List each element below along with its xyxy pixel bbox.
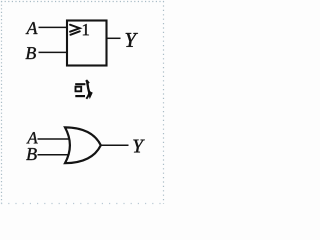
node Y (shape gate output label): [133, 140, 144, 153]
OR gate U1 (IEC rectangular symbol): [67, 21, 107, 66]
wire A to U2: [38, 138, 71, 140]
wire U1 output: [107, 37, 121, 39]
wire B to U2: [38, 154, 71, 156]
label 1 of U1: [83, 24, 89, 35]
node A (IEC gate input label): [26, 22, 38, 34]
node B (IEC gate input label): [25, 47, 35, 59]
node B (shape gate input label): [26, 148, 37, 160]
label 或 (Chinese OR), drawn strokes: [75, 80, 92, 99]
wire B to U1: [39, 51, 68, 53]
selection border top: [1, 1, 164, 3]
selection border right: [163, 1, 165, 204]
OR gate U2 (distinctive shape): [65, 127, 101, 163]
selection border left: [1, 1, 3, 204]
wire U2 output: [101, 144, 129, 146]
wire A to U1: [39, 26, 68, 28]
node Y (IEC gate output label): [126, 33, 138, 47]
selection border bottom: [1, 203, 164, 205]
node A (shape gate input label): [26, 132, 37, 143]
label &#8805; of U1: [70, 25, 80, 35]
